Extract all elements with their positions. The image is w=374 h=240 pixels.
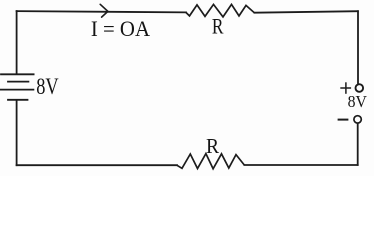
- svg-text:8V: 8V: [348, 94, 368, 111]
- svg-text:I = OA: I = OA: [91, 16, 150, 41]
- svg-text:R: R: [212, 14, 224, 39]
- svg-text:8V: 8V: [36, 73, 58, 100]
- svg-text:R: R: [206, 135, 220, 158]
